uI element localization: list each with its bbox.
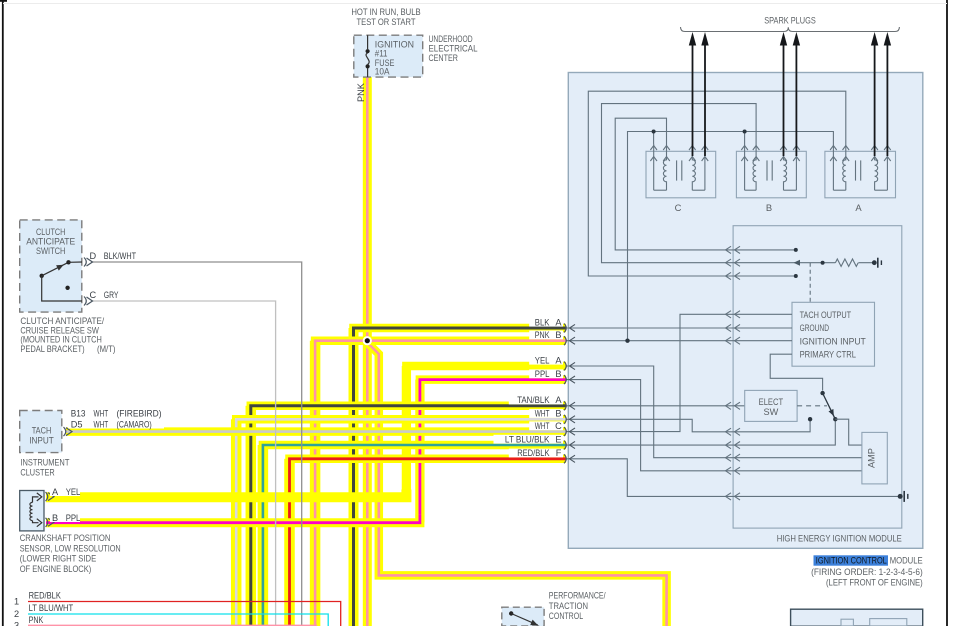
svg-text:SWITCH: SWITCH (36, 246, 65, 256)
wire PNK-B pin to IGNITION INPUT (566, 340, 792, 342)
bottom-right module inner boxes (841, 619, 907, 626)
svg-text:GROUND: GROUND (800, 323, 830, 333)
performance/traction switch symbol (509, 611, 538, 625)
label LT BLU/BLK E module pin (494, 434, 564, 444)
svg-text:IGNITION INPUT: IGNITION INPUT (800, 336, 867, 346)
svg-text:C: C (675, 202, 682, 213)
svg-text:WHT: WHT (535, 409, 550, 419)
ignition coil T-A (825, 144, 896, 198)
node PNK/ +B feed junction (625, 339, 629, 343)
node WHT-B switch contact (808, 417, 812, 421)
svg-text:PEDAL BRACKET): PEDAL BRACKET) (20, 343, 84, 354)
wire coil-A primary return to pin row (588, 91, 846, 276)
svg-text:RED/BLK: RED/BLK (29, 591, 62, 601)
svg-text:PNK: PNK (29, 615, 44, 625)
wire PPL row to module pin B (420, 380, 566, 388)
svg-text:PPL: PPL (535, 369, 550, 379)
resistor R1 (bias resistor) (835, 259, 858, 266)
svg-text:B: B (766, 202, 772, 213)
svg-text:TACH: TACH (32, 426, 52, 436)
pin D clutch switch (84, 258, 86, 267)
ignition coil T-C (646, 144, 716, 198)
wire WHT row tach input to module pin C (66, 427, 566, 436)
label B13 row (68, 409, 164, 419)
wire PRIMARY CTRL to switch pivot (770, 354, 822, 390)
caption IGNITION CONTROL MODULE (814, 555, 923, 566)
wire PNK vertical (left branch) (310, 341, 321, 626)
wire LT BLU/BLK-E pin to switch common (566, 419, 835, 445)
pin B crank sensor (46, 518, 48, 527)
wire YEL vertical (402, 366, 411, 497)
svg-text:B: B (52, 513, 58, 523)
svg-text:E: E (555, 434, 561, 444)
svg-text:SW: SW (763, 407, 778, 417)
wire YEL row to module pin A (406, 366, 566, 374)
crankshaft position sensor box B1 (20, 491, 44, 531)
svg-text:D: D (90, 251, 97, 261)
svg-text:2: 2 (14, 609, 19, 619)
svg-text:WHT: WHT (94, 409, 109, 419)
wire PPL row from crank sensor B (46, 514, 420, 522)
wire LT BLU/BLK row to module pin E (263, 445, 566, 453)
node primary row1 end (794, 248, 798, 252)
wire RED/BLK row to module pin F (290, 459, 567, 467)
svg-text:YEL: YEL (535, 355, 550, 365)
svg-text:ELECT: ELECT (759, 397, 784, 407)
wire LT BLU/WHT circuit 2 (28, 614, 328, 626)
svg-text:BLK/WHT: BLK/WHT (104, 251, 137, 261)
wire RED/BLK-F pin to ground (566, 459, 900, 497)
node +B/coil-C junction (652, 130, 656, 134)
dashed link ELECT SW to blade (797, 405, 827, 407)
svg-text:TACH OUTPUT: TACH OUTPUT (800, 310, 852, 320)
wire WHT (instrument) vertical (231, 419, 242, 626)
wire PNK circuit 3 (28, 624, 317, 626)
fuse F1 IGNITION #11 10A symbol (366, 35, 370, 77)
svg-text:(FIREBIRD): (FIREBIRD) (117, 409, 162, 419)
switch blade SW1 (823, 393, 836, 419)
svg-text:CLUSTER: CLUSTER (20, 467, 54, 478)
page top-left corner mark (0, 0, 7, 2)
svg-text:A: A (52, 487, 59, 497)
spark plug wires with arrows (689, 32, 891, 156)
page left border (2, 1, 4, 626)
wire PPL vertical (415, 380, 424, 523)
svg-text:A: A (555, 317, 562, 327)
arrow on switch blade (829, 409, 834, 416)
svg-text:RED/BLK: RED/BLK (517, 448, 550, 458)
label BLK A module pin (529, 317, 563, 327)
node +B/coil-B junction (743, 130, 747, 134)
page top faint line (3, 3, 947, 5)
wire BLK vertical (349, 328, 359, 626)
inner circuit box of HEI module (733, 226, 902, 528)
node primary row3 end (794, 274, 798, 278)
wire WHT-B pin to switch contact (566, 419, 810, 432)
svg-text:HIGH ENERGY IGNITION MODULE: HIGH ENERGY IGNITION MODULE (777, 533, 902, 544)
pin A crank sensor (46, 492, 48, 501)
svg-text:PNK: PNK (356, 82, 366, 102)
svg-text:CENTER: CENTER (429, 52, 459, 63)
wire YEL-A pin to AMP (566, 366, 862, 458)
wire WHT row to module pin B (236, 419, 566, 427)
svg-text:1: 1 (14, 597, 19, 607)
svg-text:YEL: YEL (66, 487, 81, 497)
svg-text:C: C (90, 290, 97, 300)
svg-text:BLK: BLK (535, 317, 550, 327)
svg-text:LT BLU/WHT: LT BLU/WHT (29, 603, 74, 613)
svg-text:D5: D5 (71, 420, 83, 430)
label B crank (50, 513, 80, 523)
wire LT BLU/BLK vertical (258, 445, 269, 626)
wire +B drop to coil B (744, 132, 746, 145)
wire PPL-B pin to AMP (566, 380, 862, 471)
wire RED/BLK circuit 1 (28, 602, 341, 626)
arrow on primary row2 (794, 260, 801, 266)
node switch common contact (833, 417, 837, 421)
svg-text:IGNITION CONTROL: IGNITION CONTROL (816, 555, 887, 566)
ground G1 (internal) (878, 258, 882, 268)
wire RED/BLK vertical (284, 459, 295, 626)
label WHT C module pin (529, 421, 563, 431)
module edge connector pins (564, 324, 575, 464)
label A crank (50, 487, 80, 497)
svg-text:WHT: WHT (535, 421, 550, 431)
wire PNK branch to performance/traction (367, 343, 666, 626)
svg-text:(CAMARO): (CAMARO) (117, 420, 152, 430)
performance/traction control box (502, 607, 544, 626)
inner box pin arrows (726, 246, 741, 500)
wire +B drop to coil C (653, 132, 655, 145)
ground G2 (module ground) (904, 491, 908, 502)
tach input box (instrument cluster) (20, 411, 62, 453)
wire coil-C primary return to pin row (615, 118, 796, 250)
ignition coil T-B (736, 144, 806, 198)
svg-text:B: B (555, 409, 561, 419)
svg-text:CLUTCH: CLUTCH (36, 227, 65, 237)
svg-text:CONTROL: CONTROL (549, 610, 583, 621)
label RED/BLK F module pin (509, 448, 563, 458)
svg-text:PPL: PPL (66, 513, 81, 523)
wire GRY from clutch pin C (91, 301, 276, 626)
wire TAN/BLK-A pin to ELECT SW (566, 405, 745, 407)
wire TAN/BLK row to module pin A (251, 406, 566, 414)
spark plugs brace (681, 27, 900, 32)
wire BLK-A pin to GROUND (566, 327, 792, 329)
wire switch common to AMP (835, 419, 862, 445)
svg-text:PRIMARY CTRL: PRIMARY CTRL (800, 350, 856, 360)
svg-text:AMP: AMP (867, 448, 877, 468)
svg-text:GRY: GRY (104, 290, 119, 300)
svg-text:LT BLU/BLK: LT BLU/BLK (505, 434, 550, 444)
svg-text:C: C (555, 421, 562, 431)
dashed control line to tach box (809, 263, 811, 303)
svg-text:SPARK PLUGS: SPARK PLUGS (764, 15, 816, 26)
wire TAN/BLK vertical (246, 406, 256, 626)
svg-text:PNK: PNK (535, 330, 550, 340)
fuse box (underhood electrical center) (354, 35, 423, 77)
node primary row2 junction (821, 261, 825, 265)
svg-text:OF ENGINE BLOCK): OF ENGINE BLOCK) (20, 563, 92, 574)
block TACH OUTPUT/GROUND/IGNITION INPUT/PRIMARY CTRL (792, 302, 875, 366)
clutch anticipate switch box S1 (20, 220, 82, 312)
wire PNK row to module pin B (315, 341, 566, 349)
svg-text:ANTICIPATE: ANTICIPATE (26, 237, 75, 247)
wire YEL row from crank sensor A (46, 490, 406, 498)
svg-text:A: A (555, 355, 562, 365)
svg-text:TEST OR START: TEST OR START (357, 16, 416, 27)
high energy ignition module box U2 (568, 73, 923, 549)
svg-text:B13: B13 (71, 409, 86, 419)
wire PNK vertical from fuse (363, 77, 372, 626)
block AMP U3 (862, 432, 887, 484)
wire BLK/WHT from clutch pin D (91, 262, 302, 626)
wire BLK row to module pin A (354, 328, 567, 336)
label WHT B module pin (529, 409, 563, 419)
node ground junction at resistor (872, 260, 877, 265)
block ELECT SW (745, 390, 797, 421)
label D5 row (68, 420, 164, 430)
svg-text:INPUT: INPUT (29, 436, 54, 446)
svg-text:3: 3 (14, 621, 19, 626)
wire +B ignition feed to coils (628, 132, 834, 340)
wire WHT-C pin to TACH OUTPUT (566, 314, 792, 431)
label PNK B module pin (529, 330, 563, 340)
bottom-right module box (partial) (791, 609, 923, 626)
svg-text:(LEFT FRONT OF ENGINE): (LEFT FRONT OF ENGINE) (826, 576, 923, 587)
pin C clutch switch (84, 297, 86, 306)
pin tach input (64, 427, 66, 436)
crank sensor pickup coil L1 (30, 493, 42, 527)
svg-text:10A: 10A (375, 67, 390, 77)
svg-text:A: A (855, 202, 862, 213)
svg-text:B: B (555, 369, 561, 379)
svg-text:WHT: WHT (94, 420, 109, 430)
label PPL B module pin (529, 369, 563, 379)
svg-text:TAN/BLK: TAN/BLK (517, 395, 550, 405)
clutch switch symbol (40, 260, 83, 301)
page right border (946, 0, 948, 626)
node switch pivot (820, 391, 824, 395)
wire resistor to ground (858, 262, 874, 264)
label TAN/BLK A module pin (509, 395, 563, 405)
node internal ground (898, 494, 903, 499)
svg-text:(M/T): (M/T) (97, 343, 116, 354)
label YEL A module pin (529, 355, 563, 365)
svg-text:MODULE: MODULE (890, 555, 923, 566)
svg-text:B: B (555, 330, 561, 340)
node PNK splice (363, 336, 372, 345)
svg-text:F: F (556, 448, 562, 458)
wire coil-B primary return to pin row (with resistor tap) (602, 104, 836, 263)
svg-text:A: A (555, 395, 562, 405)
